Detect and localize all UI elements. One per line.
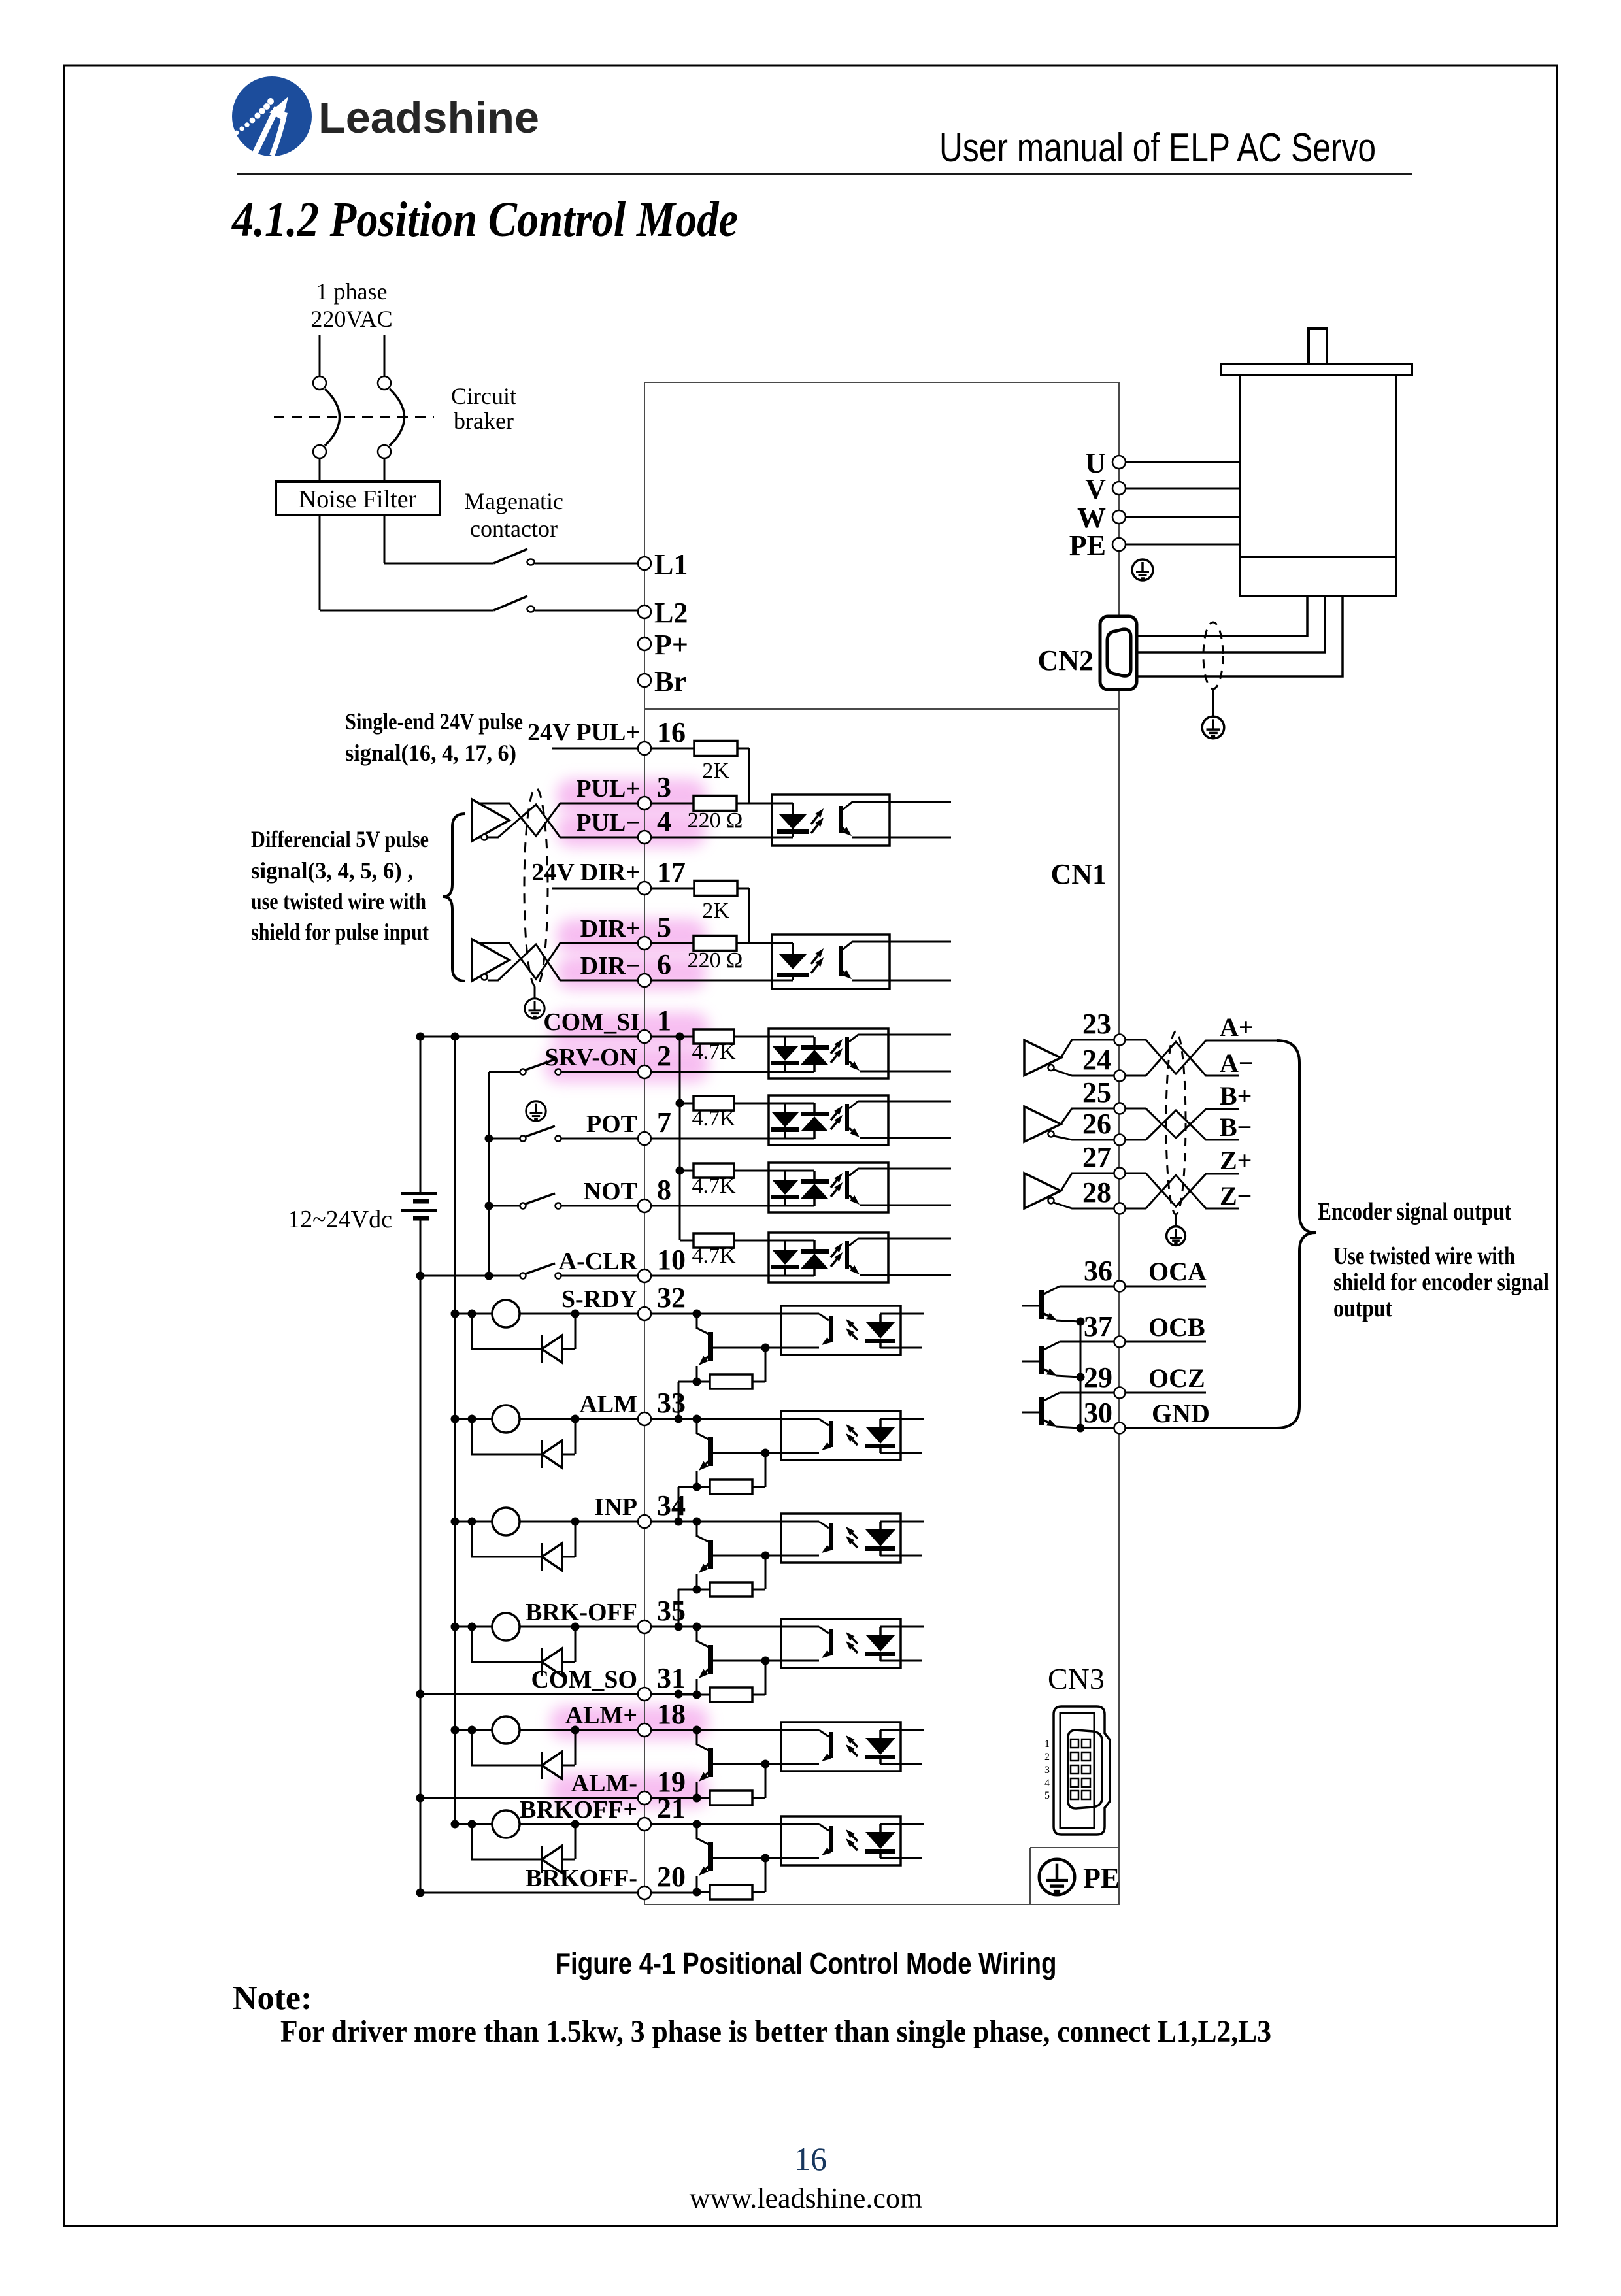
- svg-text:17: 17: [657, 856, 686, 888]
- svg-text:COM_SO: COM_SO: [531, 1666, 637, 1693]
- svg-text:16: 16: [794, 2140, 827, 2177]
- svg-text:5: 5: [657, 911, 671, 943]
- svg-text:29: 29: [1084, 1361, 1112, 1393]
- svg-text:OCB: OCB: [1148, 1312, 1205, 1342]
- svg-text:PUL+: PUL+: [576, 775, 640, 803]
- svg-text:4: 4: [1044, 1778, 1050, 1789]
- svg-text:Z−: Z−: [1220, 1181, 1252, 1210]
- svg-text:Noise Filter: Noise Filter: [299, 486, 417, 513]
- svg-text:2K: 2K: [702, 759, 729, 783]
- svg-text:PE: PE: [1069, 529, 1106, 561]
- svg-text:ALM+: ALM+: [565, 1702, 637, 1729]
- svg-text:34: 34: [657, 1489, 686, 1522]
- svg-text:2K: 2K: [702, 899, 729, 923]
- svg-text:ALM: ALM: [579, 1391, 637, 1418]
- svg-text:4.7K: 4.7K: [692, 1106, 736, 1131]
- svg-text:PUL−: PUL−: [576, 809, 640, 837]
- svg-text:36: 36: [1084, 1255, 1112, 1287]
- svg-text:33: 33: [657, 1387, 686, 1419]
- svg-text:INP: INP: [595, 1493, 637, 1521]
- svg-text:220 Ω: 220 Ω: [688, 948, 743, 973]
- svg-text:12~24Vdc: 12~24Vdc: [288, 1206, 392, 1233]
- svg-text:3: 3: [657, 771, 671, 803]
- svg-text:10: 10: [657, 1244, 686, 1276]
- svg-text:B+: B+: [1220, 1081, 1252, 1110]
- svg-text:20: 20: [657, 1861, 686, 1893]
- svg-text:use twisted wire with: use twisted wire with: [251, 888, 426, 914]
- svg-text:30: 30: [1084, 1397, 1112, 1429]
- svg-text:Note:: Note:: [233, 1980, 312, 2017]
- svg-text:SRV-ON: SRV-ON: [544, 1044, 637, 1071]
- svg-text:4.7K: 4.7K: [692, 1040, 736, 1064]
- svg-text:3: 3: [1044, 1765, 1050, 1776]
- svg-text:19: 19: [657, 1766, 686, 1798]
- svg-text:V: V: [1085, 473, 1106, 505]
- svg-text:COM_SI: COM_SI: [543, 1008, 640, 1036]
- svg-text:braker: braker: [454, 408, 514, 434]
- svg-text:Use twisted wire with: Use twisted wire with: [1333, 1242, 1515, 1270]
- svg-text:4.7K: 4.7K: [692, 1174, 736, 1198]
- svg-text:32: 32: [657, 1282, 686, 1314]
- svg-text:BRKOFF+: BRKOFF+: [520, 1796, 637, 1823]
- svg-text:Circuit: Circuit: [451, 383, 516, 409]
- svg-text:220 Ω: 220 Ω: [688, 808, 743, 833]
- svg-text:ALM-: ALM-: [571, 1770, 637, 1797]
- svg-text:31: 31: [657, 1662, 686, 1694]
- svg-text:BRKOFF-: BRKOFF-: [526, 1865, 637, 1892]
- svg-text:output: output: [1333, 1295, 1392, 1322]
- svg-text:6: 6: [657, 948, 671, 980]
- svg-text:NOT: NOT: [584, 1178, 637, 1205]
- svg-text:35: 35: [657, 1595, 686, 1627]
- svg-text:S-RDY: S-RDY: [561, 1286, 637, 1313]
- svg-text:Leadshine: Leadshine: [318, 93, 539, 142]
- svg-text:220VAC: 220VAC: [310, 306, 392, 332]
- svg-text:CN2: CN2: [1037, 644, 1094, 676]
- svg-text:CN1: CN1: [1050, 858, 1107, 890]
- svg-text:24V PUL+: 24V PUL+: [527, 719, 640, 746]
- svg-text:P+: P+: [654, 629, 688, 661]
- svg-text:BRK-OFF: BRK-OFF: [526, 1599, 637, 1626]
- svg-text:Z+: Z+: [1220, 1146, 1252, 1175]
- svg-text:24: 24: [1082, 1044, 1111, 1076]
- svg-text:Encoder signal output: Encoder signal output: [1318, 1198, 1511, 1225]
- svg-text:1: 1: [657, 1005, 671, 1037]
- svg-text:27: 27: [1082, 1141, 1111, 1173]
- svg-text:4: 4: [657, 805, 671, 837]
- svg-text:POT: POT: [586, 1110, 637, 1138]
- svg-text:4.1.2 Position Control Mode: 4.1.2 Position Control Mode: [231, 192, 738, 247]
- svg-text:23: 23: [1082, 1008, 1111, 1040]
- svg-text:16: 16: [657, 716, 686, 748]
- svg-text:26: 26: [1082, 1108, 1111, 1140]
- svg-text:DIR+: DIR+: [580, 915, 640, 942]
- svg-text:A-CLR: A-CLR: [559, 1248, 638, 1275]
- svg-text:User manual of ELP AC Servo: User manual of ELP AC Servo: [939, 125, 1376, 171]
- svg-text:DIR−: DIR−: [580, 952, 640, 980]
- svg-text:L2: L2: [654, 597, 688, 629]
- svg-text:18: 18: [657, 1698, 686, 1730]
- svg-text:A+: A+: [1220, 1012, 1254, 1042]
- svg-text:OCZ: OCZ: [1148, 1363, 1205, 1393]
- svg-text:37: 37: [1084, 1310, 1112, 1342]
- svg-text:25: 25: [1082, 1076, 1111, 1108]
- svg-text:7: 7: [657, 1106, 671, 1139]
- svg-text:L1: L1: [654, 548, 688, 580]
- svg-text:Differencial 5V pulse: Differencial 5V pulse: [251, 826, 429, 852]
- svg-text:Br: Br: [654, 665, 686, 697]
- svg-text:shield for encoder signal: shield for encoder signal: [1333, 1269, 1549, 1296]
- svg-text:2: 2: [657, 1040, 671, 1072]
- svg-text:CN3: CN3: [1048, 1662, 1105, 1695]
- svg-text:OCA: OCA: [1148, 1257, 1207, 1286]
- svg-text:8: 8: [657, 1174, 671, 1206]
- svg-text:4.7K: 4.7K: [692, 1244, 736, 1268]
- svg-text:1: 1: [1044, 1739, 1050, 1750]
- svg-text:28: 28: [1082, 1176, 1111, 1208]
- svg-text:B−: B−: [1220, 1112, 1252, 1142]
- svg-text:contactor: contactor: [470, 516, 558, 542]
- svg-text:signal(16, 4, 17, 6): signal(16, 4, 17, 6): [345, 740, 516, 766]
- svg-text:shield for pulse input: shield for pulse input: [251, 919, 429, 945]
- svg-text:Magenatic: Magenatic: [464, 488, 563, 514]
- svg-text:signal(3, 4, 5, 6) ,: signal(3, 4, 5, 6) ,: [251, 857, 413, 884]
- svg-text:5: 5: [1044, 1790, 1050, 1801]
- svg-text:www.leadshine.com: www.leadshine.com: [690, 2182, 922, 2214]
- svg-text:For driver more than 1.5kw, 3: For driver more than 1.5kw, 3 phase is b…: [280, 2014, 1271, 2049]
- svg-text:PE: PE: [1083, 1862, 1120, 1894]
- svg-text:A−: A−: [1220, 1048, 1254, 1078]
- svg-text:GND: GND: [1152, 1399, 1210, 1428]
- svg-text:Figure 4-1 Positional Control: Figure 4-1 Positional Control Mode Wirin…: [556, 1946, 1057, 1980]
- svg-text:Single-end 24V pulse: Single-end 24V pulse: [345, 708, 523, 735]
- svg-text:1 phase: 1 phase: [316, 278, 388, 305]
- svg-text:2: 2: [1044, 1752, 1050, 1763]
